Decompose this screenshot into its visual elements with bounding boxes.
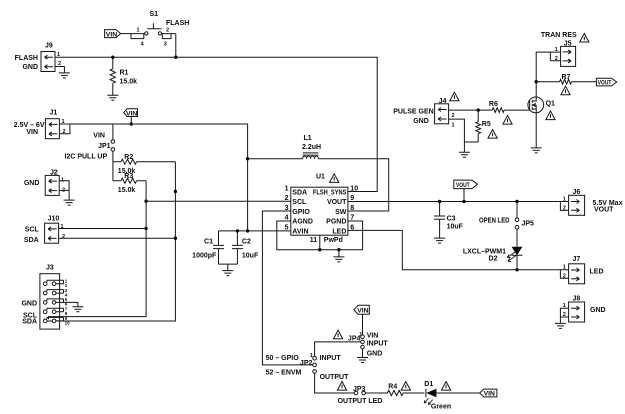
resistor R5 — [476, 110, 491, 142]
connector J9 — [15, 43, 61, 72]
capacitor C2 — [232, 231, 259, 264]
warning triangle R4 — [401, 382, 410, 391]
connector J4 — [393, 98, 454, 129]
node C2/AVIN junction — [236, 229, 239, 232]
svg-text:U1: U1 — [316, 174, 325, 181]
power tag VIN (D1) — [480, 389, 497, 398]
resistor R4 — [365, 384, 424, 396]
wire J3 gnd pin — [56, 302, 78, 306]
svg-text:9: 9 — [350, 195, 354, 202]
jumper JP4 — [348, 332, 388, 357]
svg-text:1: 1 — [555, 47, 558, 53]
wire AVIN line — [219, 230, 291, 232]
node VOUT tag junction — [462, 200, 465, 203]
wire J1 pin2 bracket — [59, 124, 70, 134]
wire JP4 pin2 to JP2 pin1 — [315, 342, 361, 357]
svg-text:GND: GND — [590, 307, 606, 314]
svg-text:I2C PULL UP: I2C PULL UP — [65, 153, 108, 160]
node pin11 junction — [318, 248, 321, 251]
wire U1 pin2 SCL — [146, 200, 291, 202]
svg-text:10: 10 — [350, 185, 358, 192]
svg-text:2: 2 — [563, 205, 566, 211]
ground J8 — [555, 323, 566, 328]
node drain/R7 junction — [535, 80, 538, 83]
svg-text:J5: J5 — [564, 41, 572, 48]
svg-text:VOUT: VOUT — [456, 182, 470, 189]
svg-text:FLSH_SYNS: FLSH_SYNS — [313, 189, 347, 196]
svg-text:GND: GND — [24, 180, 40, 187]
wire J9 pin1 FLASH line — [55, 57, 377, 191]
svg-text:J6: J6 — [573, 189, 581, 196]
svg-text:R4: R4 — [388, 384, 397, 391]
svg-text:FLASH: FLASH — [15, 55, 38, 62]
svg-text:15.0k: 15.0k — [118, 187, 136, 194]
node VIN/L1 junction — [246, 157, 249, 160]
svg-text:PULSE GEN: PULSE GEN — [393, 108, 433, 115]
warning triangle R6 — [503, 116, 512, 125]
svg-text:C2: C2 — [242, 239, 251, 246]
svg-text:GND: GND — [367, 350, 383, 357]
svg-text:OUTPUT: OUTPUT — [320, 374, 350, 381]
svg-text:1000pF: 1000pF — [192, 253, 217, 260]
svg-text:1: 1 — [137, 27, 140, 33]
svg-text:GND: GND — [22, 64, 38, 71]
svg-text:JP1: JP1 — [98, 143, 111, 150]
power tag VIN (JP4) — [354, 305, 369, 335]
svg-text:VIN: VIN — [126, 110, 137, 117]
wire J10 pin2 to SDA — [59, 237, 176, 239]
connector J8 — [563, 296, 606, 323]
power tag VIN (above J1 line) — [124, 109, 138, 124]
svg-text:J2: J2 — [50, 170, 58, 177]
svg-text:GND: GND — [413, 118, 429, 125]
capacitor C1 — [192, 231, 224, 264]
svg-text:AGND: AGND — [292, 219, 313, 226]
connector J7 — [563, 256, 604, 284]
svg-text:10uF: 10uF — [242, 253, 259, 260]
svg-text:SCL: SCL — [292, 199, 307, 206]
wire S1 to FLASH line — [175, 34, 177, 58]
connector J5 — [555, 41, 576, 67]
svg-text:R1: R1 — [120, 70, 129, 77]
ground Q1 — [531, 148, 542, 153]
svg-text:J7: J7 — [573, 256, 581, 263]
wire VIN to L1 to SW pin8 — [248, 159, 389, 211]
warning triangle Q1 — [546, 111, 555, 120]
svg-text:J1: J1 — [50, 110, 58, 117]
svg-text:R3: R3 — [124, 173, 133, 180]
node J10/SDA junction — [174, 237, 177, 240]
svg-text:INPUT: INPUT — [320, 355, 342, 362]
svg-text:C1: C1 — [204, 239, 213, 246]
resistor R3 — [113, 173, 146, 194]
svg-text:8: 8 — [350, 205, 354, 212]
node R1/FLASH junction — [111, 56, 114, 59]
svg-text:R6: R6 — [489, 101, 498, 108]
svg-text:2: 2 — [563, 274, 566, 280]
warning triangle JP4 — [334, 330, 343, 339]
node C3 junction — [438, 200, 441, 203]
svg-text:1: 1 — [563, 265, 566, 271]
svg-text:11: 11 — [310, 237, 318, 244]
node R5/pin2 junction — [477, 108, 480, 111]
svg-text:R7: R7 — [562, 74, 571, 81]
ground U1 — [333, 250, 344, 262]
ground J2 — [64, 200, 75, 205]
warning triangle D1 — [442, 382, 451, 391]
wire J2 bracket to ground — [59, 181, 69, 200]
warning triangle R7 — [561, 86, 570, 95]
resistor R1 — [110, 57, 137, 95]
wire U1 AGND-PGND loop — [277, 221, 363, 250]
connector J3 — [21, 265, 70, 330]
connector J6 — [563, 189, 623, 216]
svg-text:1: 1 — [452, 123, 455, 129]
svg-text:OPEN LED: OPEN LED — [479, 217, 510, 224]
svg-text:1: 1 — [563, 196, 566, 202]
resistor R2 — [113, 154, 175, 175]
svg-text:SCL: SCL — [25, 227, 40, 234]
ground J3 — [72, 307, 83, 312]
diode D2 LED — [463, 247, 523, 270]
svg-text:D2: D2 — [489, 255, 498, 262]
wire C1-C2 bottom join — [219, 264, 238, 271]
power tag VOUT (R7) — [596, 78, 616, 86]
svg-text:VIN: VIN — [26, 129, 38, 136]
svg-text:J4: J4 — [439, 98, 447, 105]
node JP5 junction — [515, 200, 518, 203]
node pgnd ground junction — [337, 248, 340, 251]
svg-text:2: 2 — [62, 234, 65, 240]
svg-text:VIN: VIN — [106, 31, 117, 38]
svg-text:4: 4 — [141, 42, 145, 48]
svg-text:Q1: Q1 — [546, 100, 555, 107]
svg-text:S1: S1 — [150, 11, 159, 18]
svg-text:VOUT: VOUT — [598, 80, 612, 87]
svg-text:15.0k: 15.0k — [120, 79, 138, 86]
svg-text:VOUT: VOUT — [327, 199, 347, 206]
svg-text:JP5: JP5 — [522, 220, 535, 227]
IC U1 — [285, 174, 359, 244]
svg-text:D1: D1 — [424, 381, 433, 388]
warning triangle U1 — [330, 174, 339, 183]
wire U1 pin11 stub — [319, 235, 321, 250]
svg-text:SW: SW — [335, 209, 347, 216]
ground JP4 — [357, 358, 368, 363]
wire SDA vertical net — [47, 162, 175, 321]
node SDA/pin1 junction — [174, 190, 177, 193]
wire Q1 source to ground — [535, 113, 537, 148]
svg-text:SDA: SDA — [22, 319, 37, 326]
capacitor C3 — [434, 202, 464, 239]
wire J9 pin2 to ground — [55, 67, 64, 73]
warning triangle R5 — [488, 130, 497, 139]
svg-text:AVIN: AVIN — [292, 228, 308, 235]
svg-text:TRAN RES: TRAN RES — [541, 32, 577, 39]
svg-text:SDA: SDA — [24, 237, 39, 244]
inductor L1 — [302, 135, 321, 159]
ground C3 — [434, 238, 445, 243]
wire J4 pin1 to ground/R5 — [449, 119, 479, 152]
svg-text:2: 2 — [58, 61, 61, 67]
svg-text:2: 2 — [452, 113, 455, 119]
wire LED line pin6 to J7 — [348, 230, 569, 278]
svg-text:R2: R2 — [124, 154, 133, 161]
svg-text:PwPd: PwPd — [324, 237, 343, 244]
svg-text:R5: R5 — [482, 121, 491, 128]
svg-text:J9: J9 — [45, 43, 53, 50]
connector J10 — [24, 215, 65, 243]
wire VIN tag to S1 pin1 — [121, 33, 145, 35]
svg-text:GPIO: GPIO — [292, 209, 310, 216]
wire U1 pin3 GPIO net — [262, 211, 312, 365]
svg-text:L1: L1 — [304, 135, 312, 142]
svg-text:2.5V – 6V: 2.5V – 6V — [14, 122, 45, 129]
resistor R7 — [536, 74, 596, 84]
svg-text:2: 2 — [166, 27, 169, 33]
power tag VIN (to S1) — [105, 30, 121, 39]
svg-text:GND: GND — [21, 301, 37, 308]
svg-text:3: 3 — [164, 42, 167, 48]
ground R1 — [107, 95, 118, 100]
connector J2 — [24, 170, 65, 196]
svg-text:Green: Green — [431, 403, 451, 410]
power tag VOUT (net) — [454, 180, 478, 201]
svg-text:10uF: 10uF — [447, 224, 464, 231]
svg-text:LED: LED — [332, 228, 346, 235]
svg-text:VIN: VIN — [484, 391, 495, 398]
svg-text:VIN: VIN — [93, 132, 105, 139]
jumper JP2 — [300, 353, 349, 381]
node J10/SCL junction — [144, 227, 147, 230]
svg-text:JP2: JP2 — [300, 360, 313, 367]
svg-text:SDA: SDA — [292, 189, 307, 196]
node D2/LED line junction — [515, 268, 518, 271]
warning triangle JP3 — [337, 382, 346, 391]
node VIN/AVIN junction — [246, 229, 249, 232]
transistor Q1 — [528, 97, 555, 113]
svg-text:PGND: PGND — [326, 219, 346, 226]
ground C1C2 — [222, 271, 233, 276]
switch S1 — [131, 11, 176, 48]
warning triangle J4 — [450, 92, 459, 101]
svg-text:LXCL–PWM1: LXCL–PWM1 — [463, 248, 506, 255]
svg-text:INPUT: INPUT — [367, 341, 389, 348]
svg-text:2.2uH: 2.2uH — [302, 144, 321, 151]
svg-text:J8: J8 — [573, 296, 581, 303]
wire VIN line J1 to L1 corner and down to AVIN — [59, 124, 247, 231]
jumper JP3 — [338, 386, 383, 405]
jumper JP5 — [515, 202, 534, 247]
ground J4 — [459, 152, 470, 157]
diode D1 LED green — [424, 381, 480, 410]
wire J4 pin2 to R6 — [449, 109, 493, 111]
svg-text:2: 2 — [555, 56, 558, 62]
node VIN tag junction — [130, 122, 133, 125]
svg-text:1: 1 — [285, 185, 289, 192]
svg-text:50 – GPIO: 50 – GPIO — [266, 355, 300, 362]
ground J9 — [59, 73, 70, 78]
wire J8 bracket to ground — [560, 308, 568, 323]
svg-text:LED: LED — [590, 268, 604, 275]
wire Q1 drain to J5/R7 — [536, 52, 560, 97]
wire JP2 pin3 to JP3 — [315, 373, 355, 393]
svg-text:OUTPUT LED: OUTPUT LED — [338, 398, 383, 405]
wire J10 pin1 to SCL — [59, 228, 147, 230]
node S1/FLASH junction — [174, 56, 177, 59]
svg-text:J10: J10 — [48, 215, 60, 222]
jumper JP1 — [98, 124, 115, 181]
svg-text:5: 5 — [285, 224, 289, 231]
svg-text:J3: J3 — [46, 265, 54, 272]
svg-text:10: 10 — [65, 320, 71, 325]
connector J1 — [14, 110, 66, 139]
node SCL/pin2 junction — [144, 200, 147, 203]
resistor R6 — [489, 101, 528, 112]
wire SCL vertical net — [49, 181, 147, 320]
svg-text:VOUT: VOUT — [594, 206, 614, 213]
svg-text:FLASH: FLASH — [166, 20, 189, 27]
svg-text:C3: C3 — [447, 215, 456, 222]
svg-text:VIN: VIN — [367, 332, 379, 339]
wire VOUT line pin9 to J6 — [348, 202, 569, 211]
warning triangle TRAN RES — [580, 33, 589, 42]
svg-text:52 – ENVM: 52 – ENVM — [266, 370, 302, 377]
svg-text:VIN: VIN — [357, 307, 368, 314]
